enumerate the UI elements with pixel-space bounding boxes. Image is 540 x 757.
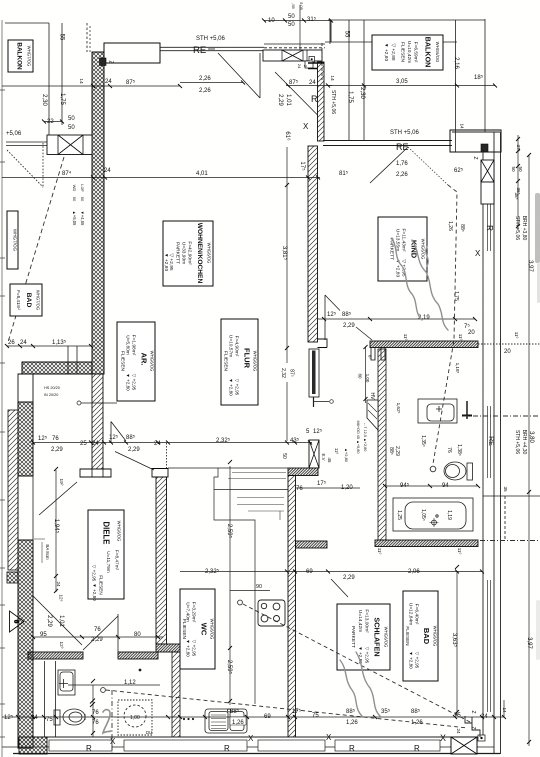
svg-text:20: 20: [468, 330, 475, 336]
dim 10/50/31 top: [264, 20, 331, 22]
svg-text:2,26: 2,26: [199, 88, 211, 94]
svg-text:11⁰: 11⁰: [457, 548, 462, 555]
corner step marks bottom right: [465, 716, 480, 737]
dim row y637 WC: [33, 636, 163, 638]
window band lines top: [160, 44, 325, 51]
dim row y717 bottom: [2, 716, 504, 718]
page left edge line: [1, 20, 3, 757]
svg-text:X: X: [326, 733, 332, 742]
svg-text:76: 76: [446, 447, 452, 453]
svg-text:88⁵: 88⁵: [388, 447, 394, 455]
svg-text:12⁵: 12⁵: [327, 311, 337, 318]
svg-text:76: 76: [296, 486, 303, 492]
svg-text:DIELE: DIELE: [102, 522, 111, 545]
svg-text:12⁵: 12⁵: [38, 435, 48, 442]
svg-text:F=13,00m²: F=13,00m²: [364, 609, 370, 633]
window glazing right: KIND: [488, 204, 491, 712]
svg-text:50: 50: [511, 166, 516, 172]
svg-text:45: 45: [327, 458, 332, 463]
svg-text:2,16: 2,16: [453, 57, 459, 69]
svg-text:F=4,90m²: F=4,90m²: [234, 336, 240, 357]
svg-text:75: 75: [312, 713, 319, 719]
wall: WHG7 side wall (diag hatch): [8, 410, 18, 570]
svg-text:90: 90: [256, 584, 262, 590]
svg-text:U=11,79m: U=11,79m: [106, 551, 111, 573]
wall: KIND west (diag hatch): [308, 146, 318, 342]
svg-text:87⁴: 87⁴: [62, 170, 72, 177]
svg-text:▼ +2,80: ▼ +2,80: [229, 378, 234, 396]
svg-text:▽ +2,95: ▽ +2,95: [415, 652, 420, 669]
label box AR: [117, 322, 155, 401]
DIELE entrance door: [39, 482, 77, 515]
svg-text:2,29: 2,29: [343, 575, 355, 581]
svg-text:2,32⁵: 2,32⁵: [205, 568, 220, 575]
svg-text:F=1,98m²: F=1,98m²: [131, 335, 137, 356]
svg-text:1,26: 1,26: [232, 720, 244, 726]
svg-text:38⁵: 38⁵: [514, 192, 519, 199]
dim row y571: [180, 571, 482, 573]
kitchen sink double: [205, 709, 247, 733]
svg-text:FLIESEN: FLIESEN: [120, 351, 126, 372]
svg-text:24: 24: [104, 168, 111, 174]
svg-text:F=6,40m²: F=6,40m²: [414, 604, 420, 625]
dot in DIELE: [139, 669, 142, 672]
dim 1,13 row y346: [7, 345, 91, 347]
svg-text:PARKETT: PARKETT: [350, 626, 356, 648]
svg-text:24: 24: [481, 714, 488, 720]
shower square dotted: [118, 700, 152, 735]
svg-text:55: 55: [59, 34, 65, 41]
wall: kitchen corner horizontal (diag hatch): [288, 468, 318, 476]
handwritten pencil marks: [103, 238, 448, 733]
dim small 22: [44, 121, 62, 123]
big letters horizontal: [44, 94, 481, 753]
svg-text:R: R: [349, 744, 355, 753]
svg-text:50: 50: [68, 125, 75, 131]
svg-text:26: 26: [8, 340, 15, 346]
svg-text:WHG6/OG: WHG6/OG: [210, 619, 215, 640]
svg-text:▲+2,80: ▲+2,80: [344, 448, 349, 463]
svg-text:7⁵: 7⁵: [464, 323, 470, 330]
svg-text:12⁵: 12⁵: [59, 594, 64, 601]
svg-text:88⁵: 88⁵: [126, 434, 136, 441]
svg-text:BALKON: BALKON: [424, 37, 433, 68]
svg-text:62⁵: 62⁵: [454, 167, 464, 174]
pier box with X at top wall: [263, 50, 322, 68]
svg-text:12⁵: 12⁵: [313, 428, 323, 435]
wall: kitchen-DIELE with foot: [152, 469, 180, 738]
svg-text:24: 24: [31, 715, 38, 721]
svg-text:76: 76: [92, 710, 99, 716]
svg-text:2,26: 2,26: [396, 172, 408, 178]
svg-text:F=42,90m²: F=42,90m²: [187, 241, 193, 265]
BAD dim row y486: [385, 485, 478, 487]
svg-text:WD: WD: [72, 185, 77, 192]
label box WC: [180, 589, 215, 669]
label box SCHLAFEN: [337, 604, 390, 670]
svg-text:50: 50: [288, 14, 295, 20]
svg-text:5,05: 5,05: [299, 2, 304, 11]
svg-text:E.V: E.V: [321, 453, 326, 460]
svg-text:24: 24: [56, 581, 61, 587]
svg-text:17⁵: 17⁵: [317, 480, 327, 487]
svg-text:IN 20/20: IN 20/20: [44, 393, 58, 397]
KIND balcony door: [370, 147, 408, 183]
svg-text:HV: HV: [369, 393, 375, 401]
svg-text:24: 24: [456, 728, 461, 734]
label box BAD WHG7: [10, 284, 42, 316]
vertical dims: [92, 685, 94, 737]
svg-text:F=8,47m²: F=8,47m²: [115, 550, 120, 571]
WC plumbing wall lines: [45, 661, 56, 737]
chimney crossed box left: [47, 135, 92, 155]
svg-text:50: 50: [68, 116, 75, 122]
svg-text:11⁰: 11⁰: [334, 448, 339, 455]
wall: KIND west upper stub (dark): [318, 62, 325, 141]
svg-text:81⁵: 81⁵: [339, 170, 349, 177]
svg-text:1,05⁵: 1,05⁵: [420, 509, 426, 521]
svg-text:FLIESEN: FLIESEN: [405, 626, 410, 645]
svg-text:2,59⁵: 2,59⁵: [226, 660, 233, 675]
svg-text:3,97: 3,97: [526, 637, 532, 649]
dim row y443: [33, 442, 312, 444]
svg-text:WHG7/OG: WHG7/OG: [13, 229, 18, 252]
svg-text:2,29: 2,29: [46, 615, 52, 627]
svg-text:1,35⁵: 1,35⁵: [420, 435, 426, 447]
SCHLAFEN door swing: [331, 579, 348, 597]
svg-text:1,75: 1,75: [59, 93, 65, 105]
bathtub: [393, 498, 473, 531]
svg-text:FLIESEN: FLIESEN: [99, 575, 104, 595]
svg-text:F=3,29m²: F=3,29m²: [191, 602, 197, 623]
svg-text:▼ +2,80: ▼ +2,80: [409, 651, 414, 669]
svg-text:Z: Z: [108, 60, 114, 63]
svg-text:BALKON: BALKON: [16, 42, 23, 70]
svg-text:▽ +2,95: ▽ +2,95: [235, 379, 240, 396]
svg-text:43⁵: 43⁵: [290, 437, 300, 444]
svg-text:1,01: 1,01: [285, 94, 291, 106]
wall: BAD south (dense hatch): [375, 540, 478, 547]
svg-text:3,81⁵: 3,81⁵: [281, 246, 288, 261]
WC door: [33, 596, 118, 652]
svg-text:WHG6/OG: WHG6/OG: [253, 351, 258, 372]
svg-text:▽ +2,95: ▽ +2,95: [365, 647, 370, 664]
KIND dim row y319: [318, 318, 475, 320]
svg-text:50: 50: [80, 197, 85, 202]
svg-text:1,20: 1,20: [341, 485, 353, 491]
svg-text:WHG6/OG: WHG6/OG: [207, 243, 212, 264]
svg-text:1,26: 1,26: [447, 221, 453, 231]
wall: block top right (KIND corner): [450, 130, 501, 152]
svg-text:87⁵: 87⁵: [126, 79, 136, 86]
svg-text:11⁰: 11⁰: [514, 332, 519, 339]
kitchen counter outline: [168, 468, 288, 704]
svg-text:2,29: 2,29: [91, 637, 103, 643]
wall stub DIELE/WC right: [296, 541, 328, 548]
svg-text:87⁵: 87⁵: [289, 79, 299, 86]
svg-text:U=33,90m: U=33,90m: [181, 242, 187, 264]
page edge smudge right: [535, 193, 540, 263]
svg-text:▼ +2,80: ▼ +2,80: [383, 43, 389, 62]
wall: BAD west: [378, 349, 386, 540]
BAD section mark: [466, 401, 468, 419]
svg-text:FLIESEN: FLIESEN: [223, 351, 229, 372]
svg-text:22: 22: [47, 119, 54, 125]
svg-text:U=10,42m: U=10,42m: [406, 41, 412, 63]
svg-text:▼+4,55: ▼+4,55: [80, 211, 85, 226]
svg-text:2,29: 2,29: [128, 447, 140, 453]
svg-text:14: 14: [329, 75, 335, 81]
svg-text:76: 76: [94, 627, 101, 633]
door jamb assembly FLUR: [309, 349, 319, 397]
svg-text:31⁵: 31⁵: [307, 16, 317, 23]
svg-text:1,12: 1,12: [124, 680, 136, 686]
svg-text:2,29: 2,29: [394, 446, 400, 456]
svg-text:WHG6/OG: WHG6/OG: [150, 351, 155, 372]
svg-text:▼ +2,80: ▼ +2,80: [186, 639, 191, 657]
svg-text:2,29: 2,29: [277, 94, 283, 106]
svg-text:LÜF: LÜF: [80, 184, 85, 192]
svg-text:▽ +2,95: ▽ +2,95: [192, 640, 197, 657]
triangle symbol 6: [10, 611, 25, 632]
HV niche: [367, 400, 378, 430]
corner outline above left wall: [18, 374, 33, 402]
svg-text:20: 20: [504, 349, 511, 355]
wall: party wall lower part (diag hatch) with foot: [80, 374, 111, 477]
dim row y488 kitchen right: [295, 487, 360, 489]
svg-text:24: 24: [105, 79, 112, 85]
svg-text:95: 95: [40, 632, 47, 638]
WC toilet: [54, 709, 85, 725]
svg-text:12⁰: 12⁰: [59, 642, 64, 649]
svg-text:11⁰: 11⁰: [403, 334, 408, 341]
svg-text:1,26: 1,26: [411, 720, 423, 726]
svg-text:37⁵: 37⁵: [516, 144, 521, 151]
svg-text:14: 14: [78, 78, 84, 84]
svg-text:Z: Z: [470, 726, 476, 729]
svg-text:25: 25: [80, 441, 87, 447]
svg-text:1,01: 1,01: [58, 615, 64, 627]
wall: WC north segments: [28, 652, 83, 659]
svg-text:35: 35: [503, 486, 508, 492]
wall: main vertical crosshatch (WHG7/WHG6 party wall, top): [92, 52, 104, 374]
svg-text:1,13⁵: 1,13⁵: [52, 339, 67, 346]
FLUR-KIND door swing: [325, 295, 372, 340]
svg-text:2,30: 2,30: [359, 87, 365, 99]
BAD washbasin: [418, 399, 457, 423]
BAD door dim: [365, 347, 367, 403]
svg-text:75: 75: [454, 713, 461, 719]
svg-text:WHG6/OG: WHG6/OG: [117, 521, 122, 542]
svg-text:11⁰: 11⁰: [458, 334, 463, 341]
wall: horizontal band KIND north (window): [323, 21, 457, 146]
svg-text:69: 69: [306, 569, 313, 575]
svg-text:19⁰: 19⁰: [59, 479, 64, 486]
svg-text:▽ +2,95: ▽ +2,95: [92, 565, 97, 582]
svg-text:R: R: [414, 744, 420, 753]
svg-text:R: R: [224, 744, 230, 753]
dark crossed box bottom right: [451, 735, 485, 754]
svg-text:2,32⁵: 2,32⁵: [216, 437, 231, 444]
svg-text:STH +5,06: STH +5,06: [514, 216, 520, 240]
bottom window boxes: [49, 740, 440, 751]
svg-text:▼ +2,80: ▼ +2,80: [92, 583, 97, 601]
svg-text:94⁵: 94⁵: [400, 482, 410, 489]
svg-text:24: 24: [154, 441, 161, 447]
svg-text:Z: Z: [472, 156, 478, 159]
door swing top wall balcony (WOHNEN): [218, 53, 260, 98]
svg-text:U=12,84m: U=12,84m: [408, 603, 414, 625]
svg-text:BRH +4,30: BRH +4,30: [521, 430, 527, 455]
svg-text:88⁵: 88⁵: [346, 708, 356, 715]
DIELE-kitchen door: [115, 452, 154, 471]
wall: kitchen / SCHLAFEN vertical (diag hatch): [288, 476, 296, 738]
svg-text:BAD: BAD: [422, 628, 431, 645]
svg-text:80: 80: [134, 632, 141, 638]
svg-text:Z: Z: [470, 710, 476, 713]
svg-text:88⁵: 88⁵: [411, 708, 421, 715]
svg-text:2,59⁵: 2,59⁵: [226, 524, 233, 539]
door swing 2 top: [275, 72, 318, 115]
wall: KIND/BAD horizontal (diag hatch): [370, 341, 478, 348]
dim row y177: [2, 177, 320, 179]
three dots left of sink: [183, 718, 185, 720]
AR door: [111, 422, 126, 444]
svg-text:R: R: [311, 94, 318, 104]
svg-text:▼ +2,80: ▼ +2,80: [163, 253, 169, 272]
wall step at bottom of KIND wall: [318, 339, 328, 348]
svg-text:18⁵: 18⁵: [474, 74, 484, 81]
svg-text:WC: WC: [200, 623, 209, 636]
crosshatch pier bottom-left: [19, 737, 47, 754]
svg-text:1,76: 1,76: [396, 161, 408, 167]
svg-text:14: 14: [502, 707, 507, 713]
svg-text:1,26: 1,26: [346, 720, 358, 726]
pier crossed box right wall: [481, 160, 494, 204]
WC washbasin: [58, 670, 75, 695]
svg-text:24: 24: [309, 80, 316, 86]
svg-text:6⁵: 6⁵: [368, 355, 373, 359]
svg-text:88⁵: 88⁵: [459, 224, 465, 232]
svg-text:35⁵: 35⁵: [381, 708, 391, 715]
svg-text:RE: RE: [396, 142, 409, 152]
svg-text:▽ +2,88: ▽ +2,88: [390, 43, 396, 60]
svg-text:X: X: [440, 733, 446, 743]
svg-text:3,05: 3,05: [396, 79, 408, 85]
label box BAD WHG6: [403, 591, 438, 681]
dim row y86 left: [2, 85, 180, 87]
label box DIELE: [88, 510, 124, 601]
svg-text:76: 76: [52, 436, 59, 442]
svg-text:F=11,43m²: F=11,43m²: [401, 229, 407, 252]
svg-text:WHG7/OG: WHG7/OG: [36, 290, 41, 310]
svg-text:M6+OD 45 ▲+5,80: M6+OD 45 ▲+5,80: [356, 421, 360, 454]
svg-text:4,01: 4,01: [196, 171, 208, 177]
page edge tick marks: [0, 90, 5, 737]
dim 1,12: [68, 684, 160, 686]
label box BALKON WHG7: [8, 40, 33, 72]
svg-text:50: 50: [281, 453, 287, 459]
top wall block at party wall: [100, 43, 161, 66]
svg-text:50: 50: [518, 166, 523, 172]
AR small lines (HS/IN shafts): [68, 346, 77, 374]
svg-text:17⁵: 17⁵: [292, 708, 302, 715]
svg-text:WHG6/OG: WHG6/OG: [433, 626, 438, 647]
svg-text:▼ +2,80: ▼ +2,80: [126, 373, 131, 391]
svg-text:STH +5,06: STH +5,06: [514, 430, 520, 454]
dashed curve WHG7: [42, 143, 44, 188]
svg-text:11⁰: 11⁰: [377, 548, 382, 555]
svg-text:87⁵: 87⁵: [289, 369, 295, 377]
svg-text:3,80: 3,80: [528, 431, 534, 443]
svg-text:BRH +3,80: BRH +3,80: [521, 216, 527, 241]
svg-text:80: 80: [358, 374, 363, 379]
svg-text:←7 12,5 ▲+2,80: ←7 12,5 ▲+2,80: [363, 423, 367, 452]
dim row y82-85 middle/right: [180, 82, 243, 84]
svg-text:X: X: [248, 734, 254, 743]
svg-text:R: R: [86, 744, 92, 753]
svg-text:F=6,59m²: F=6,59m²: [413, 42, 419, 63]
svg-text:94: 94: [442, 483, 449, 489]
svg-text:▽ +2,95: ▽ +2,95: [132, 374, 137, 391]
svg-text:1,62⁵: 1,62⁵: [396, 403, 401, 414]
svg-text:STH +5,06: STH +5,06: [390, 130, 420, 136]
svg-text:14: 14: [460, 123, 465, 129]
svg-text:RE: RE: [487, 436, 494, 446]
svg-text:75: 75: [46, 717, 53, 723]
shaft EV crossed box: [309, 440, 319, 468]
svg-text:50: 50: [72, 197, 77, 202]
svg-text:DU: DU: [146, 730, 152, 735]
svg-text:1,19: 1,19: [446, 510, 452, 520]
svg-text:88⁵: 88⁵: [342, 311, 352, 318]
label box KIND: [378, 217, 427, 281]
svg-text:76: 76: [92, 720, 99, 726]
svg-text:1,75: 1,75: [453, 291, 459, 301]
svg-text:+5,06: +5,06: [6, 131, 22, 137]
svg-text:3,63⁵: 3,63⁵: [451, 633, 458, 648]
svg-text:24: 24: [92, 441, 99, 447]
svg-text:2,29: 2,29: [51, 447, 63, 453]
svg-text:STH +5,06: STH +5,06: [196, 36, 226, 42]
svg-text:69: 69: [264, 714, 271, 720]
svg-text:50: 50: [288, 22, 295, 28]
cooktop with 4 burners: [258, 600, 285, 626]
svg-text:BAD: BAD: [25, 293, 32, 308]
dashed diagonal WHG7 bad: [8, 157, 64, 342]
svg-text:X: X: [303, 122, 309, 131]
svg-text:2,32: 2,32: [280, 368, 286, 378]
svg-text:1,18⁵: 1,18⁵: [455, 363, 460, 374]
wall: left exterior crosshatch: [18, 402, 33, 748]
svg-text:17⁵: 17⁵: [299, 161, 306, 171]
svg-text:1,00: 1,00: [130, 715, 140, 721]
svg-text:▲+5,05: ▲+5,05: [72, 211, 77, 226]
svg-text:3,97: 3,97: [527, 260, 533, 272]
svg-text:WHG7/OG: WHG7/OG: [27, 46, 32, 67]
door jambs BAD north: [371, 348, 385, 361]
svg-text:2,30: 2,30: [41, 94, 47, 106]
vertical dim x287: [286, 147, 288, 441]
svg-text:WHG6/OG: WHG6/OG: [384, 627, 389, 648]
svg-text:2,29: 2,29: [343, 323, 355, 329]
svg-text:1,94⁵: 1,94⁵: [53, 519, 60, 534]
svg-text:BA 8cm: BA 8cm: [45, 544, 50, 559]
svg-text:10: 10: [268, 18, 275, 24]
svg-text:AR.: AR.: [140, 353, 149, 366]
wall: horizontal crosshatch under WHG7 BAD: [22, 362, 92, 374]
svg-text:1,00: 1,00: [365, 374, 370, 383]
